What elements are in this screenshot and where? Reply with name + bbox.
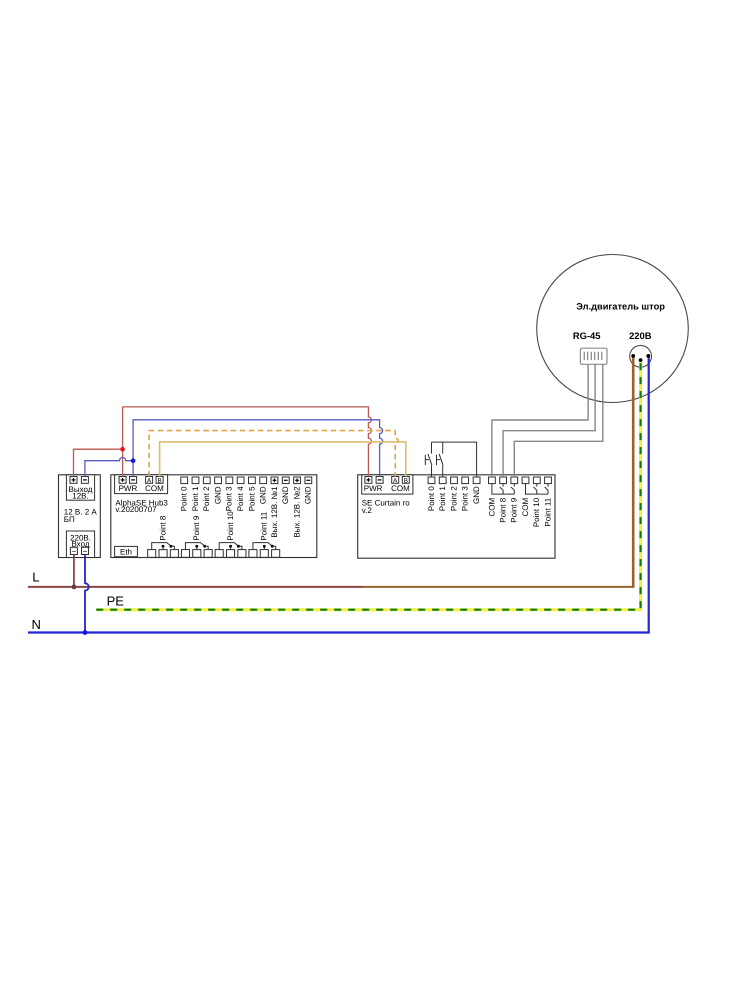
curtain terminal GND (top row) (472, 477, 481, 504)
svg-text:Вых. 12В. №1: Вых. 12В. №1 (270, 486, 279, 538)
label 220В. Вход (70, 533, 91, 548)
push button SB1 (wall switch, normally open) (425, 442, 432, 477)
wire buttons common bus to GND terminal (432, 442, 477, 477)
svg-text:Point 3: Point 3 (225, 486, 234, 511)
hub terminal GND (top row pin 3) (213, 477, 222, 504)
svg-text:RG-45: RG-45 (573, 330, 601, 341)
wire PE line (green dashes) (96, 360, 640, 610)
svg-text:GND: GND (259, 486, 268, 504)
svg-text:COM: COM (487, 497, 496, 516)
wire +12V red: junction down to hub PWR + (122, 449, 124, 476)
curtain terminal Point 3 (top row) (461, 477, 470, 511)
curtain terminal COM B (402, 477, 409, 485)
svg-text:Вых. 12В. №2: Вых. 12В. №2 (292, 486, 301, 538)
svg-text:БП: БП (64, 515, 75, 524)
svg-text:Point 0: Point 0 (180, 486, 189, 511)
svg-text:Point 11: Point 11 (260, 511, 269, 540)
svg-text:Point 10: Point 10 (532, 497, 541, 527)
svg-text:Point 11: Point 11 (543, 497, 552, 526)
wire PSU neutral input: ~ terminal down to N (hop over L) (85, 555, 89, 633)
connector J1 RG-45 jack on motor (580, 348, 607, 364)
motor socket pin PE (middle dot) (639, 358, 643, 362)
label Выход 12В. (69, 485, 93, 501)
wire +12V red: junction up and across to curtain PWR + (with hops) (123, 407, 372, 477)
motor socket pin L (left dot) (631, 354, 635, 358)
wire RG-45 pair 2 (gray): curtain Point 8 to motor jack pin 2 (503, 364, 595, 477)
curtain terminal Point 2 (top row) (449, 477, 458, 511)
hub terminal Вых. 12В. №2 (top row pin 10) (292, 477, 301, 538)
PSU terminal - (12V out) (81, 477, 88, 484)
hub terminal PWR - (130, 477, 137, 484)
curtain relay contacts group 2 (COM to Point 10/11) (526, 484, 549, 495)
hub terminal GND (top row pin 7) (259, 477, 268, 504)
svg-text:COM: COM (391, 484, 410, 493)
hub terminal Point 0 (top row pin 0) (180, 477, 189, 511)
svg-text:Point 2: Point 2 (202, 486, 211, 511)
curtain terminal COM A (392, 477, 399, 485)
wire N line blue to motor socket neutral pin (28, 356, 649, 633)
svg-text:Point 10: Point 10 (226, 511, 235, 541)
svg-text:Point 8: Point 8 (158, 515, 167, 540)
power supply PS1 БП 12В 2А block (59, 475, 101, 558)
hub terminal Point 3 (top row pin 4) (225, 477, 234, 511)
label AlphaSE Hub3 v.20200707 (115, 498, 168, 514)
hub Eth port (115, 546, 138, 556)
svg-text:GND: GND (213, 486, 222, 504)
svg-text:Point 9: Point 9 (510, 497, 519, 522)
PSU terminal + (12V out) (70, 477, 77, 484)
hub terminal GND (top row pin 11) (304, 477, 313, 504)
svg-text:Point 1: Point 1 (438, 486, 447, 511)
PSU terminal ~ (L in) (70, 547, 77, 556)
curtain terminal PWR - (376, 477, 383, 484)
svg-text:Point 2: Point 2 (449, 486, 458, 511)
svg-text:L: L (32, 570, 39, 585)
wire live brown vertical to motor socket (632, 356, 635, 588)
PSU terminal ~ (N in) (82, 547, 89, 556)
svg-text:N: N (32, 617, 41, 632)
junction node N / PSU (blue dot) (83, 630, 88, 635)
wire L line (brown segment) up to motor socket live pin (363, 586, 633, 588)
svg-text:GND: GND (304, 486, 313, 504)
hub relay output Point 10 (changeover contact with 3 terminals) (215, 511, 246, 558)
svg-text:PE: PE (107, 594, 125, 609)
svg-text:v.20200707: v.20200707 (115, 505, 157, 514)
curtain relay contacts group 1 (COM to Point 8/9) (492, 484, 514, 495)
hub terminal Point 2 (top row pin 2) (202, 477, 211, 511)
svg-text:GND: GND (472, 486, 481, 504)
svg-text:Point 0: Point 0 (427, 486, 436, 511)
motor socket pin N (right dot) (646, 354, 650, 358)
hub PWR/COM terminal box (115, 475, 168, 494)
svg-text:Point 3: Point 3 (461, 486, 470, 511)
hub relay output Point 8 (changeover contact with 3 terminals) (148, 515, 179, 557)
curtain module PWR/COM terminal box (362, 475, 413, 494)
PSU 12V output box Выход 12В (66, 475, 94, 500)
svg-text:v.2: v.2 (362, 506, 373, 515)
wire RS-485 A (orange dashed): hub A to curtain A (149, 431, 398, 477)
junction node 0V (blue dot) (131, 458, 136, 463)
svg-text:PWR: PWR (119, 484, 138, 493)
svg-text:COM: COM (521, 497, 530, 516)
wire RG-45 pair 3 (gray): curtain Point 9 to motor jack pin 3 (514, 364, 603, 477)
hub terminal COM B (156, 477, 163, 485)
hub relay output Point 9 (changeover contact with 3 terminals) (181, 515, 212, 557)
junction node +12V (red dot) (120, 447, 125, 452)
svg-text:PWR: PWR (364, 484, 383, 493)
controller U1 AlphaSE Hub3 v.20200707 block (111, 475, 317, 558)
svg-text:Point 1: Point 1 (191, 486, 200, 511)
hub terminal COM A (146, 477, 153, 485)
wire 0V blue: junction down to hub PWR - (132, 461, 134, 477)
hub terminal GND (top row pin 9) (281, 477, 290, 504)
curtain terminal PWR + (365, 477, 372, 484)
wire RS-485 B (gold): hub B to curtain B (160, 442, 406, 477)
svg-text:Point 8: Point 8 (499, 497, 508, 522)
curtain terminal COM (top row) (521, 477, 530, 516)
curtain terminal Point 8 (top row) (499, 477, 508, 523)
wire PSU live input: ~ terminal down to L (73, 555, 75, 587)
junction node L / PSU (maroon dot) (72, 585, 77, 590)
svg-text:12В.: 12В. (72, 492, 88, 501)
hub relay output Point 11 (changeover contact with 3 terminals) (249, 511, 280, 557)
hub terminal Point 1 (top row pin 1) (191, 477, 200, 511)
hub terminal Вых. 12В. №1 (top row pin 8) (270, 477, 279, 538)
svg-text:GND: GND (281, 486, 290, 504)
value label 12 В. 2 А / БП (64, 508, 98, 524)
wire 0V blue: junction up and across to curtain PWR - (with hops) (133, 420, 383, 477)
curtain terminal Point 11 (top row) (543, 477, 552, 527)
PSU 220V input box 220В Вход (66, 531, 94, 558)
motor M1 Эл.двигатель штор (curtain motor outline circle) (537, 255, 689, 403)
hub terminal Point 5 (top row pin 6) (247, 477, 256, 511)
label SE Curtain ro v.2 (362, 499, 411, 516)
svg-text:COM: COM (145, 484, 164, 493)
svg-text:Point 5: Point 5 (247, 486, 256, 511)
connector X1 220V socket on motor (630, 345, 652, 367)
wire RG-45 pair 1 (gray): curtain COM to motor jack pin 1 (492, 364, 588, 477)
hub terminal PWR + (119, 477, 126, 484)
curtain terminal Point 10 (top row) (532, 477, 541, 527)
wire +12V red: PSU + to junction (74, 449, 123, 476)
curtain terminal Point 0 (top row) (427, 477, 436, 511)
wire L line (maroon segment) (28, 586, 363, 588)
hub terminal Point 4 (top row pin 5) (236, 477, 245, 511)
svg-text:Point 4: Point 4 (236, 486, 245, 511)
curtain terminal Point 1 (top row) (438, 477, 447, 511)
push button SB2 (wall switch, normally open) (437, 442, 444, 477)
wire PE line (yellow base) (96, 360, 640, 610)
relay module U2 SE Curtain ro v.2 block (358, 475, 555, 558)
curtain terminal COM (top row) (487, 477, 496, 516)
svg-text:Эл.двигатель штор: Эл.двигатель штор (576, 302, 665, 312)
svg-text:Eth: Eth (120, 547, 132, 556)
wire 0V blue: PSU - to junction (hop over red) (85, 457, 133, 476)
svg-text:Point 9: Point 9 (192, 515, 201, 540)
svg-text:220В: 220В (629, 330, 652, 341)
curtain terminal Point 9 (top row) (510, 477, 519, 523)
